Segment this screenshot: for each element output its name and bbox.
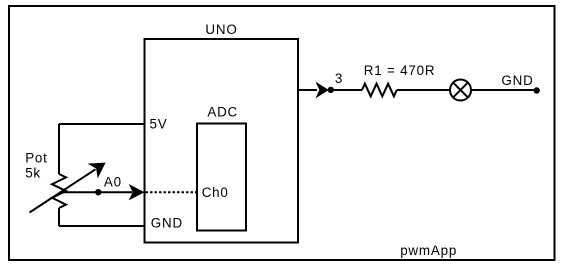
wire R1 to lamp (397, 89, 450, 91)
wire dashed A0 to Ch0 (146, 191, 197, 193)
svg-text:R1 = 470R: R1 = 470R (364, 63, 436, 78)
wire lamp to GND (471, 89, 537, 91)
potentiometer Pot 5k (25, 124, 105, 226)
wire pin 3 (298, 89, 317, 91)
node GND (534, 87, 540, 93)
lamp (450, 80, 471, 101)
wire node3 to R1 (334, 89, 362, 91)
node 3 (328, 87, 334, 93)
svg-text:5V: 5V (150, 117, 168, 132)
svg-text:pwmApp: pwmApp (400, 243, 457, 258)
module UNO (145, 22, 299, 243)
svg-text:3: 3 (335, 71, 343, 86)
svg-text:ADC: ADC (207, 105, 238, 120)
arrow into A0 (130, 185, 144, 200)
arrow pin 3 (316, 83, 328, 98)
svg-text:UNO: UNO (205, 22, 237, 37)
svg-text:Pot: Pot (25, 151, 48, 166)
svg-text:GND: GND (501, 73, 533, 88)
node A0 junction (95, 189, 101, 195)
wire GND (59, 225, 145, 227)
svg-text:Ch0: Ch0 (202, 185, 229, 200)
resistor R1 (362, 63, 435, 96)
block ADC (197, 105, 246, 231)
svg-text:5k: 5k (25, 165, 41, 180)
wire wiper A0 (63, 191, 132, 193)
svg-text:GND: GND (151, 215, 183, 230)
wire 5V (59, 123, 145, 125)
svg-text:A0: A0 (104, 174, 122, 189)
